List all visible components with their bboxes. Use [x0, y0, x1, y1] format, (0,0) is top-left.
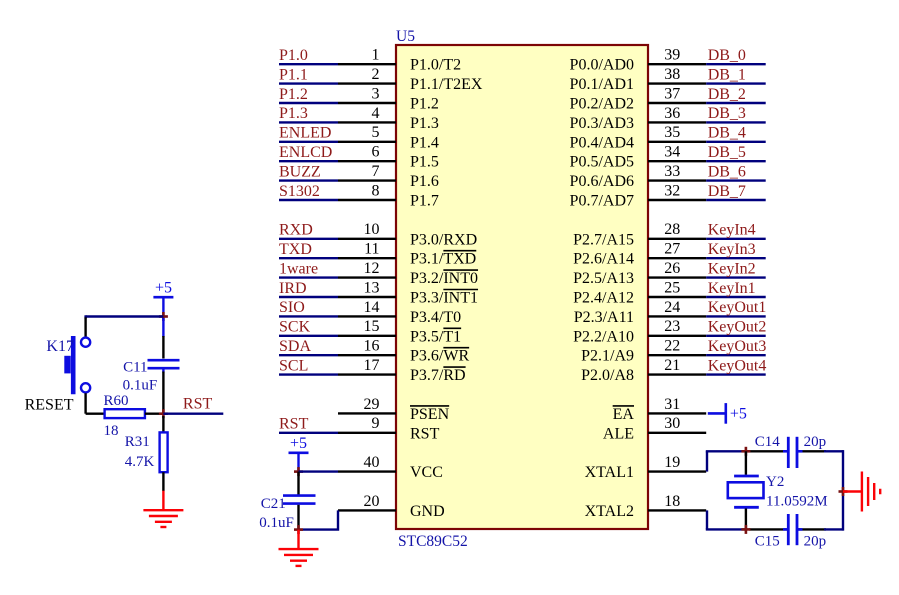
svg-text:DB_4: DB_4: [708, 125, 746, 142]
svg-text:XTAL2: XTAL2: [585, 503, 634, 520]
pin 18 wire (XTAL2): [648, 509, 706, 511]
svg-text:P1.1/T2EX: P1.1/T2EX: [410, 76, 483, 93]
svg-text:40: 40: [364, 454, 380, 471]
capacitor C21: [283, 472, 316, 530]
pin name P3.7/RD: [410, 367, 466, 384]
pin 13 wire (P3.3/INT1): [338, 296, 396, 298]
svg-text:DB_7: DB_7: [708, 183, 746, 200]
svg-text:P1.5: P1.5: [410, 154, 439, 171]
pin name P3.5/T1: [410, 328, 461, 345]
svg-text:P2.0/A8: P2.0/A8: [581, 367, 634, 384]
svg-text:20p: 20p: [804, 534, 827, 550]
wire net SDA: [279, 354, 338, 356]
svg-text:RST: RST: [410, 425, 440, 442]
wire net SCL: [279, 373, 338, 375]
wire net KeyIn3: [706, 257, 766, 259]
svg-text:P1.0/T2: P1.0/T2: [410, 57, 461, 74]
pin 9 wire (RST): [338, 432, 396, 434]
wire crystal bottom: [745, 509, 747, 530]
svg-text:6: 6: [372, 144, 380, 161]
pin 11 wire (P3.1/TXD): [338, 257, 396, 259]
pin 21 wire (P2.0/A8): [648, 373, 706, 375]
pin 1 wire (P1.0/T2): [338, 63, 396, 65]
svg-text:0.1uF: 0.1uF: [123, 378, 158, 394]
svg-text:P0.6/AD6: P0.6/AD6: [570, 173, 634, 190]
wire net DB_5: [706, 160, 766, 162]
pin 10 wire (P3.0/RXD): [338, 238, 396, 240]
svg-text:19: 19: [664, 454, 680, 471]
wire net BUZZ: [279, 179, 338, 181]
svg-text:U5: U5: [396, 28, 415, 45]
svg-text:C11: C11: [123, 359, 147, 375]
wire +5 rail to switch: [86, 315, 164, 317]
pin 24 wire (P2.3/A11): [648, 315, 706, 317]
junction J2 (R60 / C11 / R31 / RST): [159, 409, 168, 418]
svg-text:P2.4/A12: P2.4/A12: [573, 290, 634, 307]
svg-text:P3.1/TXD: P3.1/TXD: [410, 251, 476, 268]
svg-text:P1.2: P1.2: [410, 96, 439, 113]
pin name P3.2/INT0: [410, 270, 478, 287]
svg-text:DB_3: DB_3: [708, 105, 746, 122]
resistor R31: [160, 432, 168, 472]
wire net DB_7: [706, 199, 766, 201]
pin 4 wire (P1.3): [338, 121, 396, 123]
svg-text:1: 1: [372, 47, 380, 64]
wire net P1.3: [279, 121, 338, 123]
svg-text:0.1uF: 0.1uF: [259, 515, 294, 531]
wire net RXD: [279, 238, 338, 240]
svg-text:33: 33: [664, 163, 680, 180]
svg-text:EA: EA: [613, 406, 635, 423]
wire net DB_0: [706, 63, 766, 65]
pin 25 wire (P2.4/A12): [648, 296, 706, 298]
svg-text:KeyOut2: KeyOut2: [708, 319, 767, 336]
wire net KeyOut2: [706, 335, 766, 337]
wire net P1.2: [279, 102, 338, 104]
svg-text:11.0592M: 11.0592M: [766, 494, 828, 510]
svg-text:P3.5/T1: P3.5/T1: [410, 328, 461, 345]
pin 20 wire (GND): [338, 509, 396, 511]
wire GND pin 20 to junction J4: [299, 510, 339, 529]
junction J5 (C14 / crystal top): [741, 447, 750, 456]
svg-text:7: 7: [372, 163, 380, 180]
svg-text:R31: R31: [125, 434, 150, 450]
svg-text:RXD: RXD: [279, 222, 313, 239]
wire right rail: [842, 450, 844, 530]
svg-text:10: 10: [364, 221, 380, 238]
svg-text:PSEN: PSEN: [410, 406, 450, 423]
svg-text:SCK: SCK: [279, 319, 311, 336]
power +5 symbol (VCC): [289, 435, 309, 471]
svg-text:32: 32: [664, 182, 680, 199]
svg-text:C15: C15: [755, 534, 780, 550]
wire net RST (left): [163, 413, 223, 415]
svg-text:38: 38: [664, 66, 680, 83]
wire down to switch K17: [84, 315, 86, 318]
svg-text:9: 9: [372, 415, 380, 432]
pin 23 wire (P2.2/A10): [648, 335, 706, 337]
ground (crystal, sideways): [862, 472, 880, 512]
wire R31 to ground: [162, 472, 164, 491]
wire net DB_1: [706, 82, 766, 84]
wire J2 to R31: [162, 416, 164, 432]
pin name EA: [613, 406, 635, 423]
pin 34 wire (P0.5/AD5): [648, 160, 706, 162]
svg-text:4: 4: [372, 105, 380, 122]
pin 14 wire (P3.4/T0): [338, 315, 396, 317]
svg-text:14: 14: [364, 299, 380, 316]
svg-text:KeyIn3: KeyIn3: [708, 241, 756, 258]
svg-text:TXD: TXD: [279, 241, 312, 258]
svg-text:P3.6/WR: P3.6/WR: [410, 348, 469, 365]
pin 16 wire (P3.6/WR): [338, 354, 396, 356]
svg-text:27: 27: [664, 241, 680, 258]
svg-text:+5: +5: [290, 435, 307, 452]
pin 17 wire (P3.7/RD): [338, 373, 396, 375]
pin 8 wire (P1.7): [338, 199, 396, 201]
svg-text:GND: GND: [410, 503, 445, 520]
svg-text:ALE: ALE: [603, 425, 634, 442]
capacitor C11: [148, 318, 180, 414]
svg-text:S1302: S1302: [279, 183, 320, 200]
svg-text:P3.0/RXD: P3.0/RXD: [410, 231, 477, 248]
switch K17 (push-button): [64, 336, 90, 394]
svg-text:39: 39: [664, 47, 680, 64]
wire net TXD: [279, 257, 338, 259]
svg-text:P1.3: P1.3: [410, 115, 439, 132]
wire bottom rail (XTAL2 to C15): [706, 528, 746, 530]
pin name P3.6/WR: [410, 348, 469, 365]
svg-text:RST: RST: [279, 416, 309, 433]
pin 35 wire (P0.4/AD4): [648, 141, 706, 143]
pin name PSEN: [410, 406, 450, 423]
svg-text:ENLED: ENLED: [279, 125, 331, 142]
wire net KeyIn2: [706, 276, 766, 278]
crystal Y2: [728, 476, 764, 507]
wire net KeyIn1: [706, 296, 766, 298]
svg-text:21: 21: [664, 357, 680, 374]
wire net KeyIn4: [706, 238, 766, 240]
wire net IRD: [279, 296, 338, 298]
wire net P1.1: [279, 82, 338, 84]
svg-text:11: 11: [364, 241, 379, 258]
svg-text:KeyIn4: KeyIn4: [708, 222, 756, 239]
svg-text:3: 3: [372, 85, 380, 102]
pin 38 wire (P0.1/AD1): [648, 82, 706, 84]
svg-text:KeyIn1: KeyIn1: [708, 280, 756, 297]
svg-text:28: 28: [664, 221, 680, 238]
wire net DB_2: [706, 102, 766, 104]
svg-text:KeyIn2: KeyIn2: [708, 260, 756, 277]
pin 12 wire (P3.2/INT0): [338, 276, 396, 278]
pin name P3.3/INT1: [410, 290, 478, 307]
wire XTAL2 loop left-bottom vertical: [706, 510, 708, 529]
svg-text:XTAL1: XTAL1: [585, 464, 634, 481]
svg-text:P2.6/A14: P2.6/A14: [573, 251, 634, 268]
svg-text:23: 23: [664, 318, 680, 335]
svg-text:15: 15: [364, 318, 380, 335]
wire net DB_4: [706, 141, 766, 143]
pin 6 wire (P1.5): [338, 160, 396, 162]
svg-text:BUZZ: BUZZ: [279, 163, 321, 180]
svg-text:+5: +5: [730, 406, 747, 423]
pin 29 wire (PSEN): [338, 412, 396, 414]
wire net KeyOut3: [706, 354, 766, 356]
wire +5 to VCC pin 40: [299, 470, 339, 472]
svg-text:2: 2: [372, 66, 380, 83]
svg-text:P2.5/A13: P2.5/A13: [573, 270, 634, 287]
svg-text:P0.2/AD2: P0.2/AD2: [570, 96, 634, 113]
wire pin 31 to +5: [708, 412, 726, 415]
svg-text:DB_1: DB_1: [708, 66, 746, 83]
svg-text:16: 16: [364, 338, 380, 355]
pin 40 wire (VCC): [338, 470, 396, 472]
wire net KeyOut4: [706, 373, 766, 375]
svg-text:DB_6: DB_6: [708, 163, 746, 180]
wire bottom rail (C15 to right corner): [798, 528, 827, 530]
wire R60 to junction J2: [145, 413, 164, 415]
wire crystal top: [745, 451, 747, 475]
pin 30 wire (ALE): [648, 432, 706, 434]
wire net DB_3: [706, 121, 766, 123]
svg-text:20: 20: [364, 493, 380, 510]
svg-text:P0.3/AD3: P0.3/AD3: [570, 115, 634, 132]
svg-text:KeyOut3: KeyOut3: [708, 338, 767, 355]
svg-text:24: 24: [664, 299, 680, 316]
svg-text:ENLCD: ENLCD: [279, 144, 332, 161]
pin 7 wire (P1.6): [338, 179, 396, 181]
svg-text:KeyOut4: KeyOut4: [708, 357, 767, 374]
svg-text:37: 37: [664, 85, 680, 102]
svg-text:P1.7: P1.7: [410, 193, 439, 210]
pin 31 wire (EA): [648, 412, 706, 414]
svg-text:P0.0/AD0: P0.0/AD0: [570, 57, 634, 74]
svg-text:20p: 20p: [804, 434, 827, 450]
svg-text:26: 26: [664, 260, 680, 277]
svg-text:P1.4: P1.4: [410, 134, 439, 151]
junction J6 (C15 / crystal bottom): [741, 525, 750, 534]
IC U5 body (STC89C52): [396, 45, 648, 529]
svg-text:18: 18: [104, 423, 119, 439]
svg-text:17: 17: [364, 357, 380, 374]
pin 22 wire (P2.1/A9): [648, 354, 706, 356]
pin 36 wire (P0.3/AD3): [648, 121, 706, 123]
svg-text:8: 8: [372, 182, 380, 199]
svg-text:DB_2: DB_2: [708, 86, 746, 103]
svg-text:Y2: Y2: [766, 474, 784, 490]
wire net SCK: [279, 335, 338, 337]
capacitor C14: [783, 437, 803, 468]
svg-text:35: 35: [664, 124, 680, 141]
svg-text:IRD: IRD: [279, 280, 307, 297]
svg-text:1ware: 1ware: [279, 260, 318, 277]
svg-text:P2.7/A15: P2.7/A15: [573, 231, 634, 248]
resistor R60: [105, 409, 145, 418]
svg-text:K17: K17: [46, 338, 74, 355]
svg-text:29: 29: [364, 396, 380, 413]
svg-text:VCC: VCC: [410, 464, 443, 481]
svg-text:DB_0: DB_0: [708, 47, 746, 64]
svg-text:SCL: SCL: [279, 357, 308, 374]
power +5 symbol (reset): [153, 280, 173, 317]
svg-text:P0.4/AD4: P0.4/AD4: [570, 134, 634, 151]
svg-text:P0.1/AD1: P0.1/AD1: [570, 76, 634, 93]
svg-text:P1.6: P1.6: [410, 173, 439, 190]
ground (C21 / pin 20): [279, 530, 319, 566]
wire net ENLED: [279, 141, 338, 143]
svg-text:P0.7/AD7: P0.7/AD7: [570, 193, 634, 210]
pin 19 wire (XTAL1): [648, 470, 706, 472]
svg-text:C14: C14: [755, 434, 781, 450]
junction J1 (+5 / C11 / switch): [159, 312, 168, 321]
svg-text:P1.1: P1.1: [279, 66, 308, 83]
svg-text:KeyOut1: KeyOut1: [708, 299, 767, 316]
svg-text:13: 13: [364, 279, 380, 296]
pin 5 wire (P1.4): [338, 141, 396, 143]
wire net 1ware: [279, 276, 338, 278]
svg-text:P3.7/RD: P3.7/RD: [410, 367, 466, 384]
svg-text:P3.4/T0: P3.4/T0: [410, 309, 461, 326]
svg-text:P2.1/A9: P2.1/A9: [581, 348, 634, 365]
svg-text:25: 25: [664, 279, 680, 296]
power +5 symbol (EA): [726, 403, 747, 424]
svg-text:P0.5/AD5: P0.5/AD5: [570, 154, 634, 171]
svg-text:4.7K: 4.7K: [125, 454, 155, 470]
svg-text:36: 36: [664, 105, 680, 122]
wire net S1302: [279, 199, 338, 201]
wire net RST: [279, 432, 338, 434]
pin 27 wire (P2.6/A14): [648, 257, 706, 259]
wire net SIO: [279, 315, 338, 317]
pin 15 wire (P3.5/T1): [338, 335, 396, 337]
pin 32 wire (P0.7/AD7): [648, 199, 706, 201]
wire switch to R60: [84, 393, 86, 414]
svg-text:30: 30: [664, 415, 680, 432]
svg-text:P1.3: P1.3: [279, 105, 308, 122]
svg-text:SDA: SDA: [279, 338, 311, 355]
wire net KeyOut1: [706, 315, 766, 317]
svg-text:P3.2/INT0: P3.2/INT0: [410, 270, 478, 287]
svg-text:P2.3/A11: P2.3/A11: [574, 309, 634, 326]
pin 3 wire (P1.2): [338, 102, 396, 104]
svg-text:RESET: RESET: [25, 396, 74, 413]
wire net P1.0: [279, 63, 338, 65]
svg-text:DB_5: DB_5: [708, 144, 746, 161]
svg-text:18: 18: [664, 493, 680, 510]
junction J3 (+5 / VCC / C21): [294, 467, 303, 476]
ground (reset divider): [143, 491, 183, 527]
pin 39 wire (P0.0/AD0): [648, 63, 706, 65]
svg-text:SIO: SIO: [279, 299, 305, 316]
capacitor C15: [783, 514, 803, 545]
svg-text:C21: C21: [261, 496, 286, 512]
wire net DB_6: [706, 179, 766, 181]
wire to right ground: [843, 490, 862, 492]
svg-text:RST: RST: [183, 396, 213, 413]
wire top rail (C14 to right corner): [798, 450, 827, 452]
pin name P3.1/TXD: [410, 251, 476, 268]
svg-text:P1.2: P1.2: [279, 86, 308, 103]
wire XTAL1 loop left-top vertical: [706, 451, 708, 471]
pin 33 wire (P0.6/AD6): [648, 179, 706, 181]
pin 26 wire (P2.5/A13): [648, 276, 706, 278]
svg-text:STC89C52: STC89C52: [398, 533, 468, 550]
svg-text:P1.0: P1.0: [279, 47, 308, 64]
svg-text:5: 5: [372, 124, 380, 141]
pin 2 wire (P1.1/T2EX): [338, 82, 396, 84]
svg-text:12: 12: [364, 260, 380, 277]
junction J7 (right rail / ground): [839, 487, 848, 496]
svg-text:P3.3/INT1: P3.3/INT1: [410, 290, 478, 307]
svg-text:34: 34: [664, 144, 680, 161]
pin 28 wire (P2.7/A15): [648, 238, 706, 240]
junction J4 (C21 / GND): [294, 525, 303, 534]
wire net ENLCD: [279, 160, 338, 162]
svg-text:R60: R60: [104, 393, 129, 409]
pin 37 wire (P0.2/AD2): [648, 102, 706, 104]
svg-text:22: 22: [664, 338, 680, 355]
svg-text:31: 31: [664, 396, 680, 413]
wire top rail (XTAL1 to C14): [706, 450, 746, 452]
svg-text:+5: +5: [155, 280, 172, 297]
svg-text:P2.2/A10: P2.2/A10: [573, 328, 634, 345]
